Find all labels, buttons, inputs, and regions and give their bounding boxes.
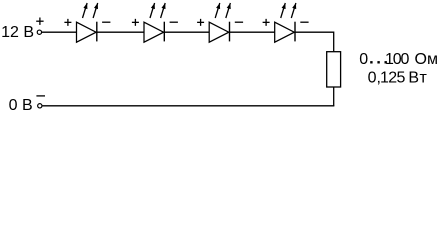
polarity + at 12 В terminal	[36, 18, 43, 25]
LED VD1	[77, 22, 97, 43]
svg-text:0 В: 0 В	[9, 97, 33, 114]
svg-text:0: 0	[359, 51, 368, 68]
terminal X2 (0 В)	[38, 104, 42, 108]
LED VD2 light-emission arrow 1	[150, 3, 155, 18]
LED VD4 light-emission arrow 1	[281, 3, 286, 18]
polarity − at 0 В terminal	[36, 95, 45, 97]
svg-text:100: 100	[385, 51, 409, 68]
polarity + at VD4 anode	[263, 19, 270, 26]
svg-text:Ом: Ом	[415, 51, 438, 68]
polarity − at VD2 cathode	[170, 21, 178, 23]
polarity − at VD1 cathode	[102, 21, 110, 23]
wire (top rail segment 4)	[230, 31, 275, 33]
LED VD1 light-emission arrow 1	[83, 3, 88, 18]
LED VD3	[209, 22, 229, 43]
wire (resistor bottom lead)	[333, 88, 335, 106]
wire (bottom rail)	[42, 105, 334, 107]
LED VD2	[144, 22, 164, 43]
LED VD3 light-emission arrow 1	[215, 3, 220, 18]
terminal X1 (+12 В)	[37, 30, 41, 34]
wire (top rail segment 5)	[295, 32, 334, 51]
LED VD4 light-emission arrow 2	[291, 3, 296, 18]
resistor R1	[327, 52, 341, 87]
LED VD4	[275, 22, 295, 43]
resistor R1 power label 0,125 Вт	[368, 70, 428, 87]
svg-text:12 В: 12 В	[1, 24, 34, 41]
polarity + at VD1 anode	[64, 19, 71, 26]
LED VD3 light-emission arrow 2	[226, 3, 231, 18]
polarity + at VD3 anode	[197, 19, 204, 26]
svg-text:Вт: Вт	[408, 70, 427, 87]
polarity + at VD2 anode	[132, 19, 139, 26]
resistor R1 value label 0…100 Ом	[359, 51, 438, 68]
LED VD2 light-emission arrow 2	[161, 3, 166, 18]
wire (top rail segment 1)	[42, 31, 77, 33]
wire (top rail segment 3)	[164, 31, 209, 33]
polarity − at VD3 cathode	[235, 21, 243, 23]
svg-text:125: 125	[380, 70, 405, 87]
wire (top rail segment 2)	[97, 31, 144, 33]
svg-text:0,: 0,	[368, 70, 381, 87]
ellipsis dots of 0…100	[370, 61, 387, 63]
LED VD1 light-emission arrow 2	[93, 3, 98, 18]
polarity − at VD4 cathode	[300, 21, 308, 23]
